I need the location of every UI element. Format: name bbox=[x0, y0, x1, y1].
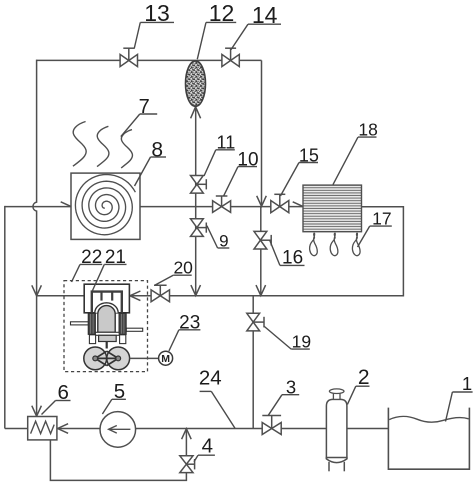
svg-text:8: 8 bbox=[151, 138, 163, 161]
svg-text:4: 4 bbox=[202, 434, 213, 457]
svg-text:17: 17 bbox=[372, 208, 391, 228]
svg-text:24: 24 bbox=[199, 367, 222, 390]
svg-text:18: 18 bbox=[358, 119, 377, 139]
svg-text:1: 1 bbox=[462, 373, 472, 394]
svg-text:M: M bbox=[161, 353, 170, 365]
svg-text:19: 19 bbox=[292, 331, 311, 351]
